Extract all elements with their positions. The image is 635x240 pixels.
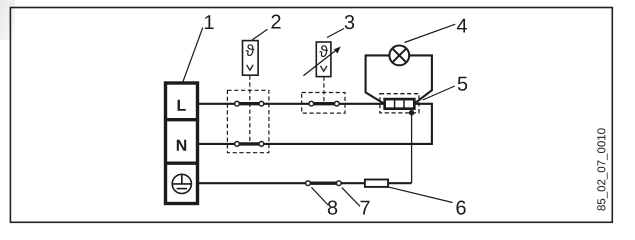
leader 5 [423,86,455,100]
thermostat 3 dashed link [323,77,325,104]
contact box 2 (dashed) [227,90,269,152]
label 1 [205,15,214,29]
contact 2 upper bar [237,102,261,105]
terminal block 1 [166,83,198,204]
label 3 [345,15,354,29]
wire PE riser to heater [411,111,413,183]
leader 1 [183,28,203,82]
thermostat 2 dashed link [249,76,251,144]
lamp 4 [389,46,409,66]
contact 2 upper circles [235,101,240,106]
contact box 3 (dashed) [302,93,345,114]
heater 5 element [385,99,415,109]
contact 3 bar [311,102,337,105]
label 7 [360,201,369,215]
thermostat 3 adjust arrow [303,47,340,76]
contact circle 7 [336,181,341,186]
lamp wires [366,55,432,103]
wire L line [198,103,384,105]
label 6 [456,201,465,215]
contact 2 lower bar [237,142,261,145]
thermostat 3 body [316,42,331,77]
contact 3 circles [309,101,314,106]
heater 5 dashed box [380,94,419,113]
wire N line [198,104,432,144]
leader 3 [327,29,344,38]
resistor 6 [365,180,388,187]
leader 7 [342,188,360,207]
thermostat 2 body [243,41,259,76]
contact 2 lower circles [235,142,240,147]
leader 4 [405,24,456,42]
contact 8/7 bar on PE line [308,182,339,185]
doc number (vertical) [597,128,607,210]
label 2 [271,15,280,29]
wire PE line [198,182,412,184]
contact circle 8 [306,181,311,186]
ground symbol (PE terminal) [172,174,191,193]
leader 8 [312,187,329,205]
leader 2 [252,29,268,40]
label 4 [457,19,467,33]
label 8 [328,201,337,215]
label 5 [458,77,467,91]
junction dot [409,110,414,115]
leader 6 [387,187,453,203]
